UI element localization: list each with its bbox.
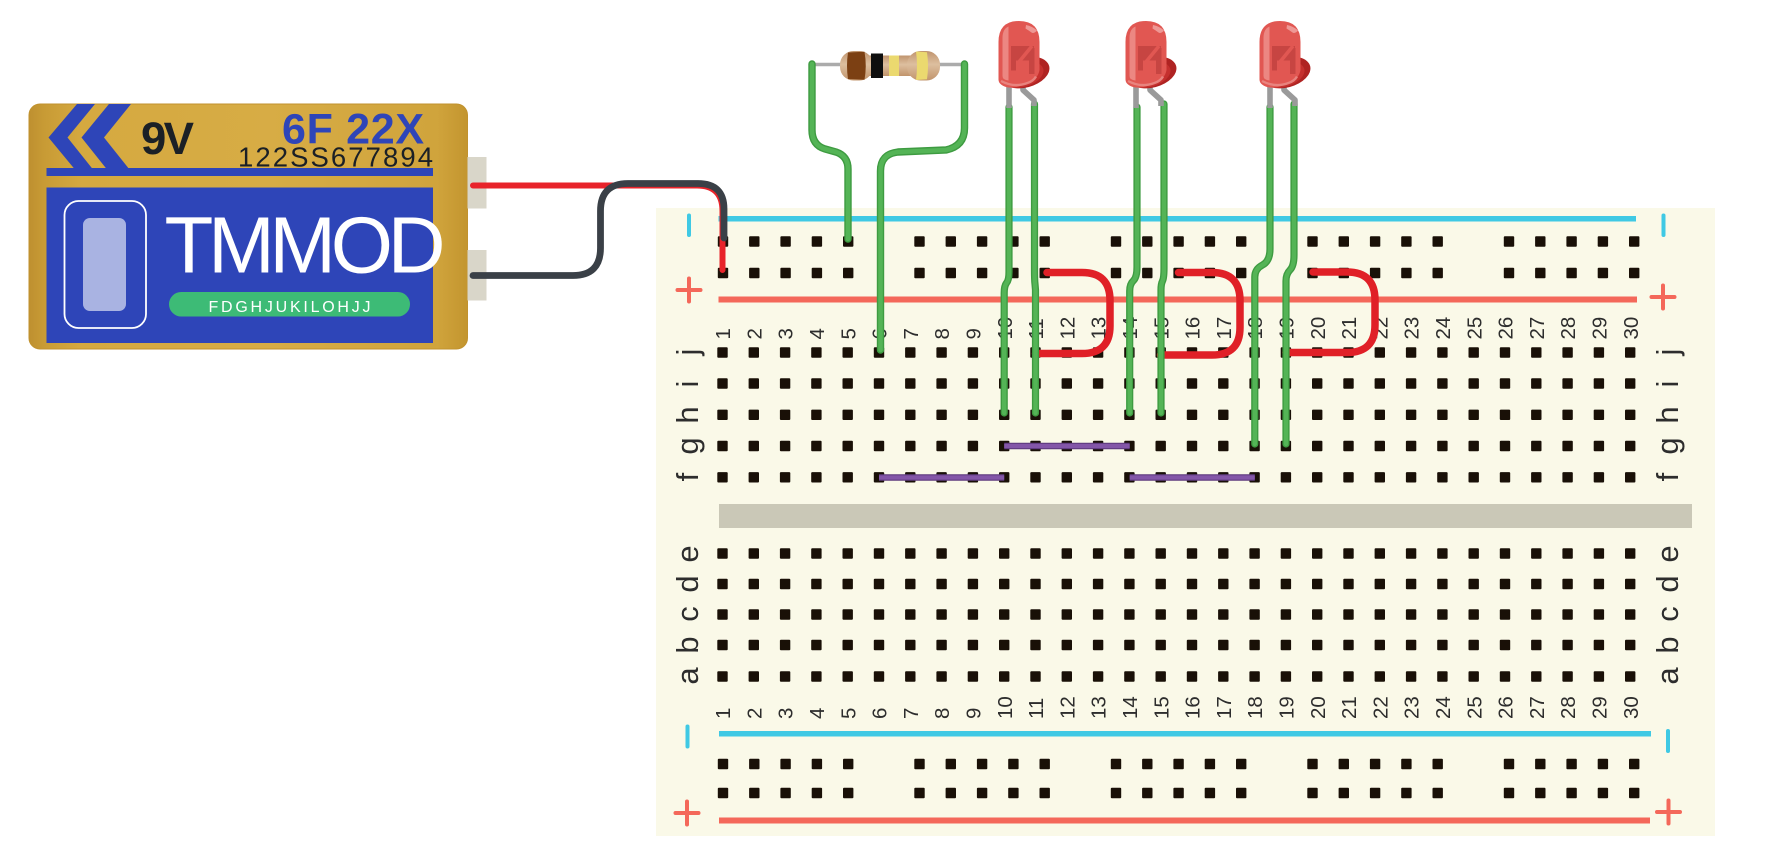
top-left plus marker [678,279,701,302]
svg-text:30: 30 [1620,696,1643,719]
top column number labels [712,317,1643,340]
svg-text:b: b [1650,636,1685,653]
svg-text:122SS677894: 122SS677894 [238,142,433,173]
top power rail holes [718,236,728,246]
svg-text:TMMOD: TMMOD [165,201,446,290]
svg-text:j: j [670,349,705,357]
battery terminal + [468,157,487,209]
bottom power rail holes [718,759,728,769]
svg-text:i: i [670,381,705,388]
svg-text:c: c [1650,606,1685,622]
svg-text:4: 4 [806,708,829,719]
svg-text:1: 1 [712,328,735,339]
svg-text:26: 26 [1495,317,1518,340]
top positive rail line [719,297,1638,303]
bottom negative rail line [719,731,1651,737]
svg-text:e: e [670,545,705,562]
LED2 gray legs [1133,84,1139,108]
row letter labels [670,349,1685,685]
svg-text:3: 3 [775,328,798,339]
svg-text:16: 16 [1182,317,1205,340]
svg-text:5: 5 [837,328,860,339]
svg-text:17: 17 [1213,696,1236,719]
svg-text:g: g [670,437,705,454]
svg-text:24: 24 [1432,317,1455,340]
svg-text:28: 28 [1557,317,1580,340]
svg-text:i: i [1650,381,1685,388]
svg-text:e: e [1650,545,1685,562]
LED1 gray legs [1006,84,1012,108]
svg-text:14: 14 [1119,696,1142,719]
battery blue separator line [47,168,434,176]
svg-text:25: 25 [1463,317,1486,340]
resistor band brown [847,52,866,80]
svg-text:17: 17 [1213,317,1236,340]
svg-text:9: 9 [963,328,986,339]
svg-text:b: b [670,636,705,653]
LED3 cathode green lead to g18 [1255,107,1270,444]
svg-text:a: a [670,667,705,685]
resistor R1 green lead left [812,64,848,239]
svg-text:7: 7 [900,708,923,719]
LED1 red body [997,21,1053,93]
svg-text:12: 12 [1056,317,1079,340]
svg-text:f: f [670,472,705,481]
svg-text:6: 6 [869,708,892,719]
svg-text:8: 8 [931,328,954,339]
svg-text:7: 7 [900,328,923,339]
svg-text:23: 23 [1401,696,1424,719]
svg-text:28: 28 [1557,696,1580,719]
LED2 cathode green lead to h14 [1130,107,1137,413]
LED2 anode green lead to h15 [1161,104,1164,413]
svg-text:11: 11 [1025,698,1048,719]
red wire from battery + to top power rail row2 col1 [473,186,723,271]
svg-text:21: 21 [1338,317,1361,340]
svg-text:30: 30 [1620,317,1643,340]
svg-text:9: 9 [963,708,986,719]
svg-text:1: 1 [712,708,735,719]
svg-text:19: 19 [1276,696,1299,719]
svg-text:29: 29 [1589,696,1612,719]
svg-text:h: h [1650,406,1685,423]
LED2 red body [1124,21,1180,93]
purple wire f6-f10 [879,474,1004,481]
LED3 anode green lead to g19 [1286,104,1294,444]
svg-text:27: 27 [1526,317,1549,340]
bottom-left minus marker [686,725,690,749]
red jumper J1: + rail to j11 [1036,273,1111,354]
purple wire f14-f18 [1130,474,1255,481]
svg-text:d: d [670,575,705,592]
svg-text:24: 24 [1432,696,1455,719]
svg-text:25: 25 [1463,696,1486,719]
svg-text:12: 12 [1056,696,1079,719]
svg-text:d: d [1650,575,1685,592]
battery BT1 9V body [29,104,468,349]
resistor R1 body [856,56,924,77]
svg-text:2: 2 [743,328,766,339]
main grid holes rows a-e [717,548,727,558]
svg-text:23: 23 [1401,317,1424,340]
svg-text:10: 10 [994,696,1017,719]
bottom positive rail line [719,818,1650,824]
battery window inner pad [83,218,126,311]
center divider bar [719,504,1692,528]
resistor band black [871,54,883,79]
bottom column number labels [712,696,1643,719]
main grid holes rows f-j [717,347,727,357]
resistor R1 green lead right [881,64,965,350]
top-right plus marker [1652,286,1675,309]
bottom-right plus marker [1657,801,1680,824]
LED1 anode green lead to h11 [1035,104,1036,413]
svg-text:5: 5 [837,708,860,719]
red jumper J3: + rail to j19 [1286,272,1375,353]
black wire from battery - to top power rail row1 col1 [473,184,724,276]
svg-text:2: 2 [743,708,766,719]
battery window outline [65,201,147,328]
red jumper J2: + rail to j15 [1161,273,1241,356]
svg-text:16: 16 [1182,696,1205,719]
svg-text:20: 20 [1307,317,1330,340]
bottom-left plus marker [676,802,699,825]
svg-text:3: 3 [775,708,798,719]
top negative rail line [719,216,1637,222]
battery blue label panel [47,188,434,344]
svg-text:g: g [1650,437,1685,454]
top-left minus marker [687,214,691,238]
LED3 gray legs [1267,84,1273,108]
svg-text:26: 26 [1495,696,1518,719]
svg-text:27: 27 [1526,696,1549,719]
svg-text:18: 18 [1244,696,1267,719]
top-right minus marker [1662,214,1666,238]
svg-text:c: c [670,606,705,622]
svg-text:j: j [1650,349,1685,357]
battery terminal - [468,250,487,301]
svg-text:a: a [1650,667,1685,685]
svg-text:29: 29 [1589,317,1612,340]
svg-text:8: 8 [931,708,954,719]
purple wire g10-g14 [1004,443,1129,450]
svg-text:22: 22 [1369,696,1392,719]
resistor R1 lead line [811,63,965,67]
battery green pill [169,292,410,317]
resistor band yellow 2 [916,52,928,81]
svg-text:13: 13 [1088,696,1111,719]
svg-text:h: h [670,406,705,423]
resistor band yellow [889,56,899,77]
LED3 red body [1258,21,1314,93]
battery chevron logo [49,104,96,172]
svg-text:21: 21 [1338,696,1361,719]
svg-text:f: f [1650,472,1685,481]
bottom-right minus marker [1666,729,1670,753]
svg-text:4: 4 [806,328,829,339]
breadboard base [656,208,1715,836]
svg-text:9V: 9V [141,113,195,164]
svg-text:15: 15 [1150,696,1173,719]
LED1 cathode green lead to h10 [1004,107,1009,413]
svg-text:20: 20 [1307,696,1330,719]
